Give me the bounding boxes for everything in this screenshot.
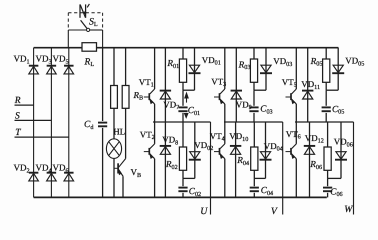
svg-text:HL: HL: [113, 126, 125, 136]
svg-text:T: T: [15, 128, 21, 138]
svg-text:U: U: [200, 206, 208, 217]
svg-text:R: R: [14, 96, 21, 106]
svg-text:W: W: [344, 204, 353, 215]
svg-text:V: V: [271, 206, 278, 217]
svg-text:S: S: [15, 112, 20, 122]
